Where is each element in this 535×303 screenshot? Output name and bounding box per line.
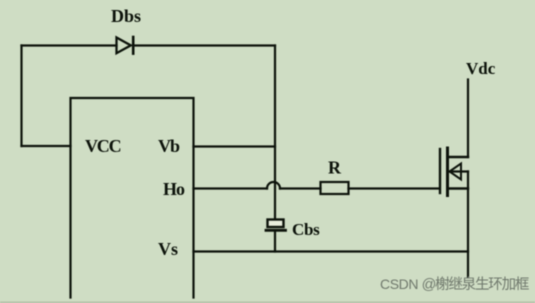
- capacitor Cbs: [266, 220, 286, 231]
- transistor Q1 (N-MOSFET): [440, 148, 468, 196]
- svg-text:Ho: Ho: [163, 179, 185, 199]
- svg-text:Cbs: Cbs: [292, 220, 320, 239]
- wire hop to resistor: [280, 187, 321, 189]
- resistor R: [321, 182, 349, 194]
- wire hop over bootstrap vertical: [267, 182, 280, 188]
- IC box U1 (gate driver): [71, 98, 194, 298]
- wire top horizontal left segment: [22, 44, 117, 46]
- wire resistor to gate: [349, 187, 439, 189]
- source horizontal: [449, 187, 469, 189]
- channel bar: [446, 148, 449, 196]
- diode Dbs: [117, 37, 134, 54]
- drain horizontal: [449, 156, 469, 158]
- svg-text:Vb: Vb: [158, 136, 180, 156]
- wire Vb output: [194, 145, 276, 147]
- svg-text:VCC: VCC: [85, 136, 121, 156]
- wire Vs rail: [194, 250, 469, 252]
- body diode shaft: [450, 170, 469, 172]
- wire bootstrap vertical (node Vb) upper: [274, 46, 276, 220]
- body diode triangle: [450, 164, 462, 180]
- wire top horizontal right segment: [133, 44, 275, 46]
- svg-text:Vdc: Vdc: [466, 59, 496, 78]
- wire source vertical down: [467, 172, 469, 278]
- svg-text:R: R: [328, 158, 342, 178]
- svg-text:CSDN @榭继泉生环加框: CSDN @榭继泉生环加框: [380, 276, 529, 293]
- wire left vertical: [20, 46, 22, 147]
- wire left lower horizontal to VCC box: [22, 145, 71, 147]
- gate bar: [439, 149, 441, 193]
- wire capacitor to Vs rail: [274, 232, 276, 252]
- bottom edge artifact: [0, 302, 535, 303]
- wire drain to Vdc: [467, 80, 469, 158]
- svg-text:Vs: Vs: [158, 239, 178, 259]
- wire Ho output to hop: [194, 187, 268, 189]
- svg-text:Dbs: Dbs: [111, 6, 141, 26]
